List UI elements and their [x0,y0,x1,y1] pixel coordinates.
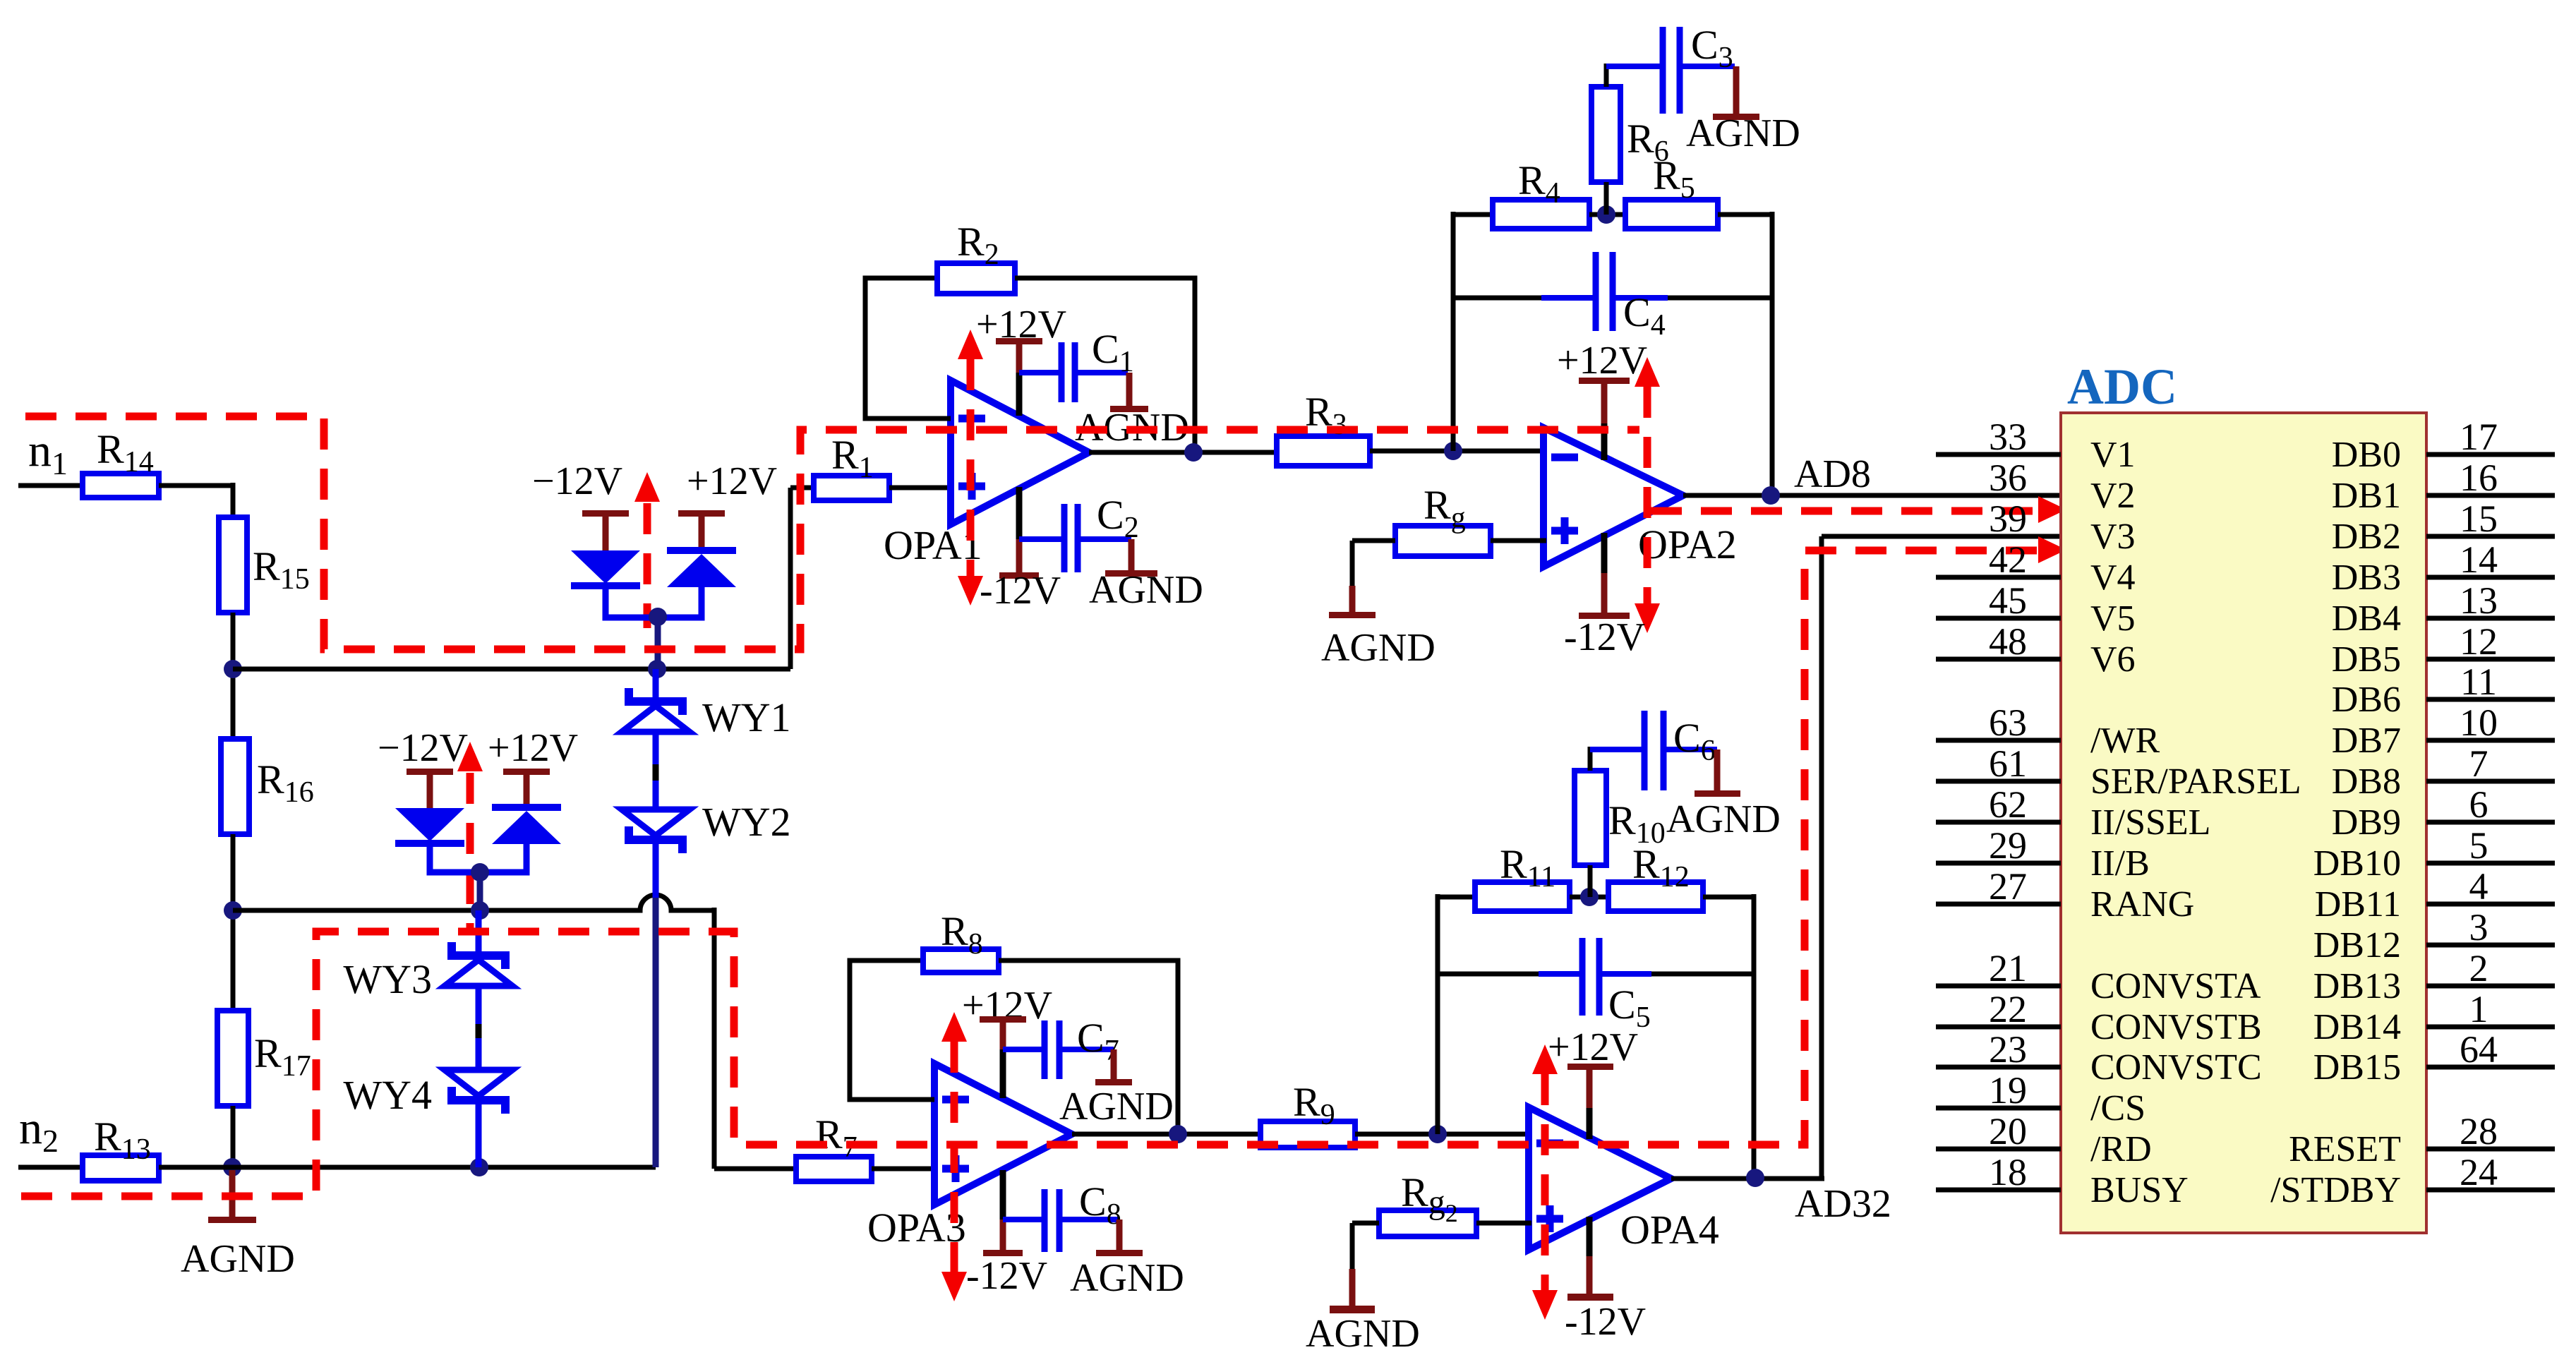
signal path n2 (red dashed) [21,536,2066,1196]
wire R11 to R12 [1570,895,1608,900]
power bar -12V (OPA2) [1579,533,1630,619]
resistor R5 [1625,152,1718,229]
svg-text:48: 48 [1989,620,2027,663]
node n2-column junction [223,1158,241,1176]
power arrow (OPA3) [941,1012,967,1301]
svg-text:15: 15 [2460,498,2498,540]
power bar +12V (pair2) [503,769,550,805]
power +12V label (pair1) [687,459,777,503]
capacitor C8 [1003,1179,1121,1252]
pin 19 /CS (left) [1936,1069,2145,1128]
power arrow (OPA4) [1532,1044,1558,1320]
svg-text:AGND: AGND [1666,797,1781,841]
pin 14 DB3 (right) [2332,538,2555,598]
wire rail1 to WY1 [653,669,659,699]
svg-text:RESET: RESET [2289,1129,2401,1169]
pin 21 CONVSTA (left) [1936,947,2261,1006]
svg-text:21: 21 [1989,947,2027,989]
wire R10 stems [1588,747,1593,897]
svg-text:+12V: +12V [1548,1025,1638,1069]
svg-text:V2: V2 [2090,476,2136,516]
pin 45 V5 (left) [1936,579,2136,639]
resistor R13 [83,1114,159,1181]
pin 18 BUSY (left) [1936,1151,2189,1210]
wire Rg to AGND [1352,541,1395,612]
svg-text:29: 29 [1989,824,2027,867]
wire AD32 to V3 [1822,536,2061,1179]
svg-text:63: 63 [1989,701,2027,744]
svg-text:RANG: RANG [2090,884,2194,925]
svg-text:2: 2 [2469,947,2488,989]
svg-text:AGND: AGND [181,1237,295,1281]
svg-text:DB6: DB6 [2332,680,2401,720]
power bar +12V (OPA2) [1579,378,1630,460]
resistor R10 [1575,771,1666,865]
svg-text:DB8: DB8 [2332,761,2401,802]
svg-text:WY4: WY4 [343,1072,432,1118]
svg-text:SER/PARSEL: SER/PARSEL [2090,761,2301,802]
svg-text:−12V: −12V [378,726,468,770]
wire R15 to R16 [231,613,236,741]
node clamp2 junction [471,863,489,881]
op-amp OPA1 [884,380,1089,568]
svg-text:ADC: ADC [2067,359,2177,415]
node R3-R4 junction [1444,442,1462,460]
svg-text:/CS: /CS [2090,1088,2145,1128]
node clamp1 junction [649,608,667,626]
node R4-R5-R6 junction [1597,205,1615,224]
resistor R12 [1608,841,1703,911]
ground AGND (C2) [1089,539,1203,612]
power bar +12V (OPA3) [980,1016,1026,1098]
svg-text:V1: V1 [2090,435,2136,475]
svg-text:V3: V3 [2090,517,2136,557]
wire rail2 with hop [233,895,714,910]
wire R17 to n2 rail [231,1106,236,1170]
svg-text:DB5: DB5 [2332,639,2401,680]
svg-text:AD32: AD32 [1795,1182,1891,1226]
pin 63 /WR (left) [1936,701,2160,761]
wire OPA3 feedback left [850,960,934,1100]
wire n2 rail [232,1165,656,1170]
zener WY3 [343,942,512,1002]
wire Rg2 to OPA4 plus [1476,1221,1531,1226]
svg-text:/STDBY: /STDBY [2270,1170,2401,1210]
svg-text:II/SSEL: II/SSEL [2090,802,2210,843]
wire R9 to OPA4 minus [1355,1132,1531,1137]
svg-text:AGND: AGND [1089,568,1203,612]
node AD8 junction [1762,486,1780,505]
ground AGND (C7) [1059,1049,1174,1128]
svg-text:WY3: WY3 [343,956,432,1002]
wire Rg2 to AGND [1352,1223,1379,1306]
wire OPA1 feedback left [865,278,951,418]
svg-text:AD8: AD8 [1794,452,1871,496]
node rail2 clamp junction [471,901,489,920]
wire clamp1 to rail1 [655,617,661,669]
op-amp OPA3 [867,1064,1072,1251]
pin 1 DB14 (right) [2313,988,2555,1047]
power bar -12V (OPA1) [999,487,1039,579]
power -12V label (OPA1) [980,569,1061,613]
svg-text:39: 39 [1989,498,2027,540]
svg-text:DB11: DB11 [2315,884,2401,925]
power +12V label (pair2) [488,726,578,770]
resistor R7 [796,1112,872,1181]
pin 6 DB9 (right) [2332,783,2555,843]
svg-text:17: 17 [2460,416,2498,458]
ground AGND (Rg) [1321,612,1436,670]
capacitor C5 [1438,938,1754,1034]
pin 16 DB1 (right) [2332,457,2555,516]
node rail2-left junction [224,901,242,920]
wire WY1 to WY2 [653,732,659,812]
svg-text:DB14: DB14 [2313,1007,2401,1047]
ground AGND (C8) [1070,1220,1184,1300]
node AD32 junction [1746,1169,1764,1187]
resistor R11 [1475,841,1570,911]
svg-text:AGND: AGND [1321,626,1436,670]
svg-text:12: 12 [2460,620,2498,663]
svg-text:DB3: DB3 [2332,558,2401,598]
resistor R4 [1493,157,1589,229]
pin 61 SER/PARSEL (left) [1936,742,2301,802]
capacitor C2 [1019,492,1139,572]
svg-text:DB9: DB9 [2332,802,2401,843]
svg-text:13: 13 [2460,579,2498,622]
svg-text:DB2: DB2 [2332,517,2401,557]
power +12V label (OPA4) [1548,1025,1638,1069]
pin 29 II/B (left) [1936,824,2150,884]
zener WY1 [622,688,791,740]
svg-text:20: 20 [1989,1110,2027,1152]
pin 2 DB13 (right) [2313,947,2555,1006]
wire R12 to output vertical [1703,894,1754,1178]
pin 64 DB15 (right) [2313,1028,2555,1088]
resistor R8 [923,908,999,972]
node R9-R11 junction [1428,1125,1447,1143]
svg-text:DB1: DB1 [2332,476,2401,516]
svg-text:19: 19 [1989,1069,2027,1112]
pin 12 DB5 (right) [2332,620,2555,680]
svg-text:CONVSTA: CONVSTA [2090,966,2261,1006]
wire R4 input vertical [1453,212,1493,451]
svg-text:42: 42 [1989,538,2027,581]
pin 62 II/SSEL (left) [1936,783,2210,843]
op-amp OPA4 [1529,1107,1719,1253]
signal path OPA2 out to V2 (red dashed) [1651,496,2066,523]
diode D2 (to +12V) [659,547,736,618]
resistor R16 [221,739,314,834]
svg-text:AGND: AGND [1059,1085,1174,1128]
capacitor C4 [1453,252,1772,342]
svg-text:4: 4 [2469,865,2488,908]
node OPA1 output junction [1184,443,1203,462]
svg-text:28: 28 [2460,1110,2498,1152]
pin 3 DB12 (right) [2313,906,2555,965]
resistor Rg2 [1379,1169,1476,1236]
svg-text:14: 14 [2460,538,2498,581]
svg-text:DB4: DB4 [2332,598,2401,639]
power arrow (OPA1) [958,330,983,606]
ground AGND (C1) [1075,373,1189,450]
svg-text:−12V: −12V [532,459,622,503]
pin 23 CONVSTC (left) [1936,1028,2262,1088]
pin 5 DB10 (right) [2313,824,2555,884]
svg-text:AGND: AGND [1686,112,1800,155]
svg-text:DB13: DB13 [2313,966,2401,1006]
wire R16 to R17 [231,834,236,1013]
node R11-R12-R10 junction [1580,888,1599,906]
IC U1 ADC body [2061,413,2426,1233]
power bar +12V (OPA1) [996,338,1042,416]
pin 17 DB0 (right) [2332,416,2555,475]
pin 15 DB2 (right) [2332,498,2555,557]
resistor Rg [1395,482,1491,556]
svg-text:62: 62 [1989,783,2027,826]
svg-text:33: 33 [1989,416,2027,458]
signal path n1 (red dashed) [25,416,1639,649]
wire n1 input [18,483,83,488]
zener WY4 [343,1070,512,1118]
wire OPA3 feedback right [999,960,1178,1134]
power bar -12V (OPA4) [1567,1217,1613,1301]
svg-text:64: 64 [2460,1028,2498,1071]
svg-text:16: 16 [2460,457,2498,499]
wire OPA1 output [1089,450,1280,455]
wire R6 stems [1604,64,1609,215]
svg-text:36: 36 [1989,457,2027,499]
svg-text:22: 22 [1989,988,2027,1030]
resistor R17 [217,1011,311,1106]
power bar +12V (OPA4) [1567,1064,1613,1139]
node rail1 diode junction [648,660,666,678]
wire n2 input [18,1165,83,1170]
wire R13 to column [159,1165,235,1170]
node OPA3 output junction [1169,1125,1187,1143]
svg-text:1: 1 [2469,988,2488,1030]
svg-text:BUSY: BUSY [2090,1170,2189,1210]
pin 13 DB4 (right) [2332,579,2555,639]
svg-text:DB0: DB0 [2332,435,2401,475]
power arrow up (pair1) [634,472,660,628]
wire R14 to column [159,483,233,519]
wire rail2 down to R7 [714,908,796,1169]
pin 36 V2 (left) [1989,457,2136,516]
power -12V label (OPA3) [966,1254,1047,1298]
wire WY4 to n2 rail [476,1104,482,1167]
svg-text:-12V: -12V [1564,615,1645,659]
wire rail1 to R1 [790,488,814,669]
wire R1 to OPA1 plus [889,486,953,490]
wire clamp2 to rail2 [477,872,483,910]
svg-text:6: 6 [2469,783,2488,826]
svg-text:23: 23 [1989,1028,2027,1071]
power bar +12V (pair1) [678,510,725,548]
svg-text:OPA2: OPA2 [1638,522,1737,567]
diode D3 (to -12V) [395,808,479,872]
svg-text:DB15: DB15 [2313,1047,2401,1088]
power +12V label (OPA2) [1557,339,1647,383]
pin 20 /RD (left) [1936,1110,2152,1169]
pin 24 /STDBY (right) [2270,1151,2555,1210]
wire rail2 to WY3 [476,910,482,953]
pin 33 V1 (left) [1936,416,2136,475]
resistor R15 [219,517,310,613]
pin 27 RANG (left) [1936,865,2194,925]
wire WY2 to n2 rail [653,844,659,1167]
pin 42 V4 (left) [1936,538,2136,598]
IC U1 ADC title [2067,359,2177,415]
svg-text:-12V: -12V [980,569,1061,613]
svg-text:OPA4: OPA4 [1620,1207,1719,1253]
power +12V label (OPA1) [976,303,1066,347]
wire WY3 to WY4 [476,986,482,1072]
svg-text:CONVSTB: CONVSTB [2090,1007,2262,1047]
wire OPA4 output AD32 [1671,1176,1824,1181]
capacitor C1 [1019,326,1134,402]
node n2 zener junction [470,1158,488,1176]
ground AGND at n2 divider [181,1170,295,1281]
svg-text:18: 18 [1989,1151,2027,1193]
wire R3 to OPA2 minus [1370,449,1546,454]
net AD32 label [1795,1182,1891,1226]
resistor R14 [83,426,159,498]
svg-text:V4: V4 [2090,558,2136,598]
svg-text:WY1: WY1 [702,694,791,740]
power bar -12V (pair1) [582,510,629,552]
node n2 label [19,1102,59,1159]
power -12V label (OPA2) [1564,615,1645,659]
svg-text:WY2: WY2 [702,799,791,845]
power bar -12V (pair2) [407,769,453,809]
svg-text:/RD: /RD [2090,1129,2152,1169]
capacitor C6 [1590,711,1717,790]
diode D1 (to -12V) [571,550,656,618]
power -12V label (pair2) [378,726,468,770]
capacitor C7 [1003,1015,1119,1079]
wire R11 input vertical [1438,894,1475,1134]
svg-text:AGND: AGND [1070,1256,1184,1300]
power -12V label (pair1) [532,459,622,503]
svg-text:61: 61 [1989,742,2027,785]
ground AGND (C6) [1666,749,1781,841]
wire Rg to OPA2 plus [1491,538,1546,543]
zener WY2 [622,799,791,853]
net AD8 label [1794,452,1871,496]
ground AGND (C3) [1686,66,1800,155]
svg-text:-12V: -12V [966,1254,1047,1298]
svg-text:DB10: DB10 [2313,843,2401,884]
pin 22 CONVSTB (left) [1936,988,2262,1047]
power bar -12V (OPA3) [983,1170,1023,1256]
wire R7 to OPA3 plus [872,1167,937,1172]
svg-text:24: 24 [2460,1151,2498,1193]
svg-text:10: 10 [2460,701,2498,744]
ground AGND (Rg2) [1306,1306,1420,1356]
pin 11 DB6 (right) [2332,661,2555,720]
wire R4 to R5 [1589,212,1625,217]
svg-text:5: 5 [2469,824,2488,867]
capacitor C3 [1606,22,1735,114]
diode D4 (to +12V) [481,804,561,872]
wire OPA3 output [1072,1132,1263,1137]
wire rail1 [233,667,790,672]
svg-text:DB7: DB7 [2332,721,2401,761]
svg-text:/WR: /WR [2090,721,2160,761]
resistor R3 [1277,389,1370,466]
svg-text:V6: V6 [2090,639,2136,680]
pin 7 DB8 (right) [2332,742,2555,802]
svg-text:AGND: AGND [1306,1312,1420,1356]
pin 4 DB11 (right) [2315,865,2555,925]
svg-text:3: 3 [2469,906,2488,949]
wire R5 to output vertical [1718,212,1772,495]
pin 48 V6 (left) [1936,620,2136,680]
node n1 label [28,425,68,481]
svg-text:45: 45 [1989,579,2027,622]
svg-text:-12V: -12V [1565,1300,1646,1344]
svg-text:27: 27 [1989,865,2027,908]
svg-text:+12V: +12V [1557,339,1647,383]
pin 39 V3 (left) [1989,498,2136,557]
svg-text:V5: V5 [2090,598,2136,639]
svg-text:7: 7 [2469,742,2488,785]
node rail1-left junction [224,660,242,678]
op-amp OPA2 [1543,428,1737,567]
svg-text:II/B: II/B [2090,843,2150,884]
pin 10 DB7 (right) [2332,701,2555,761]
svg-text:+12V: +12V [488,726,578,770]
power +12V label (OPA3) [962,984,1052,1028]
pin 28 RESET (right) [2289,1110,2555,1169]
power -12V label (OPA4) [1565,1300,1646,1344]
power arrow up (pair2) [457,742,483,930]
resistor R9 [1260,1079,1355,1148]
wire OPA1 feedback right [1015,278,1195,452]
svg-text:11: 11 [2460,661,2497,703]
power arrow (OPA2) [1635,357,1660,633]
wire OPA2 output AD8 [1683,493,2061,498]
svg-text:CONVSTC: CONVSTC [2090,1047,2262,1088]
resistor R1 [814,432,889,500]
resistor R6 [1591,87,1669,182]
svg-text:+12V: +12V [687,459,777,503]
resistor R2 [937,219,1015,294]
svg-text:DB12: DB12 [2313,925,2401,965]
